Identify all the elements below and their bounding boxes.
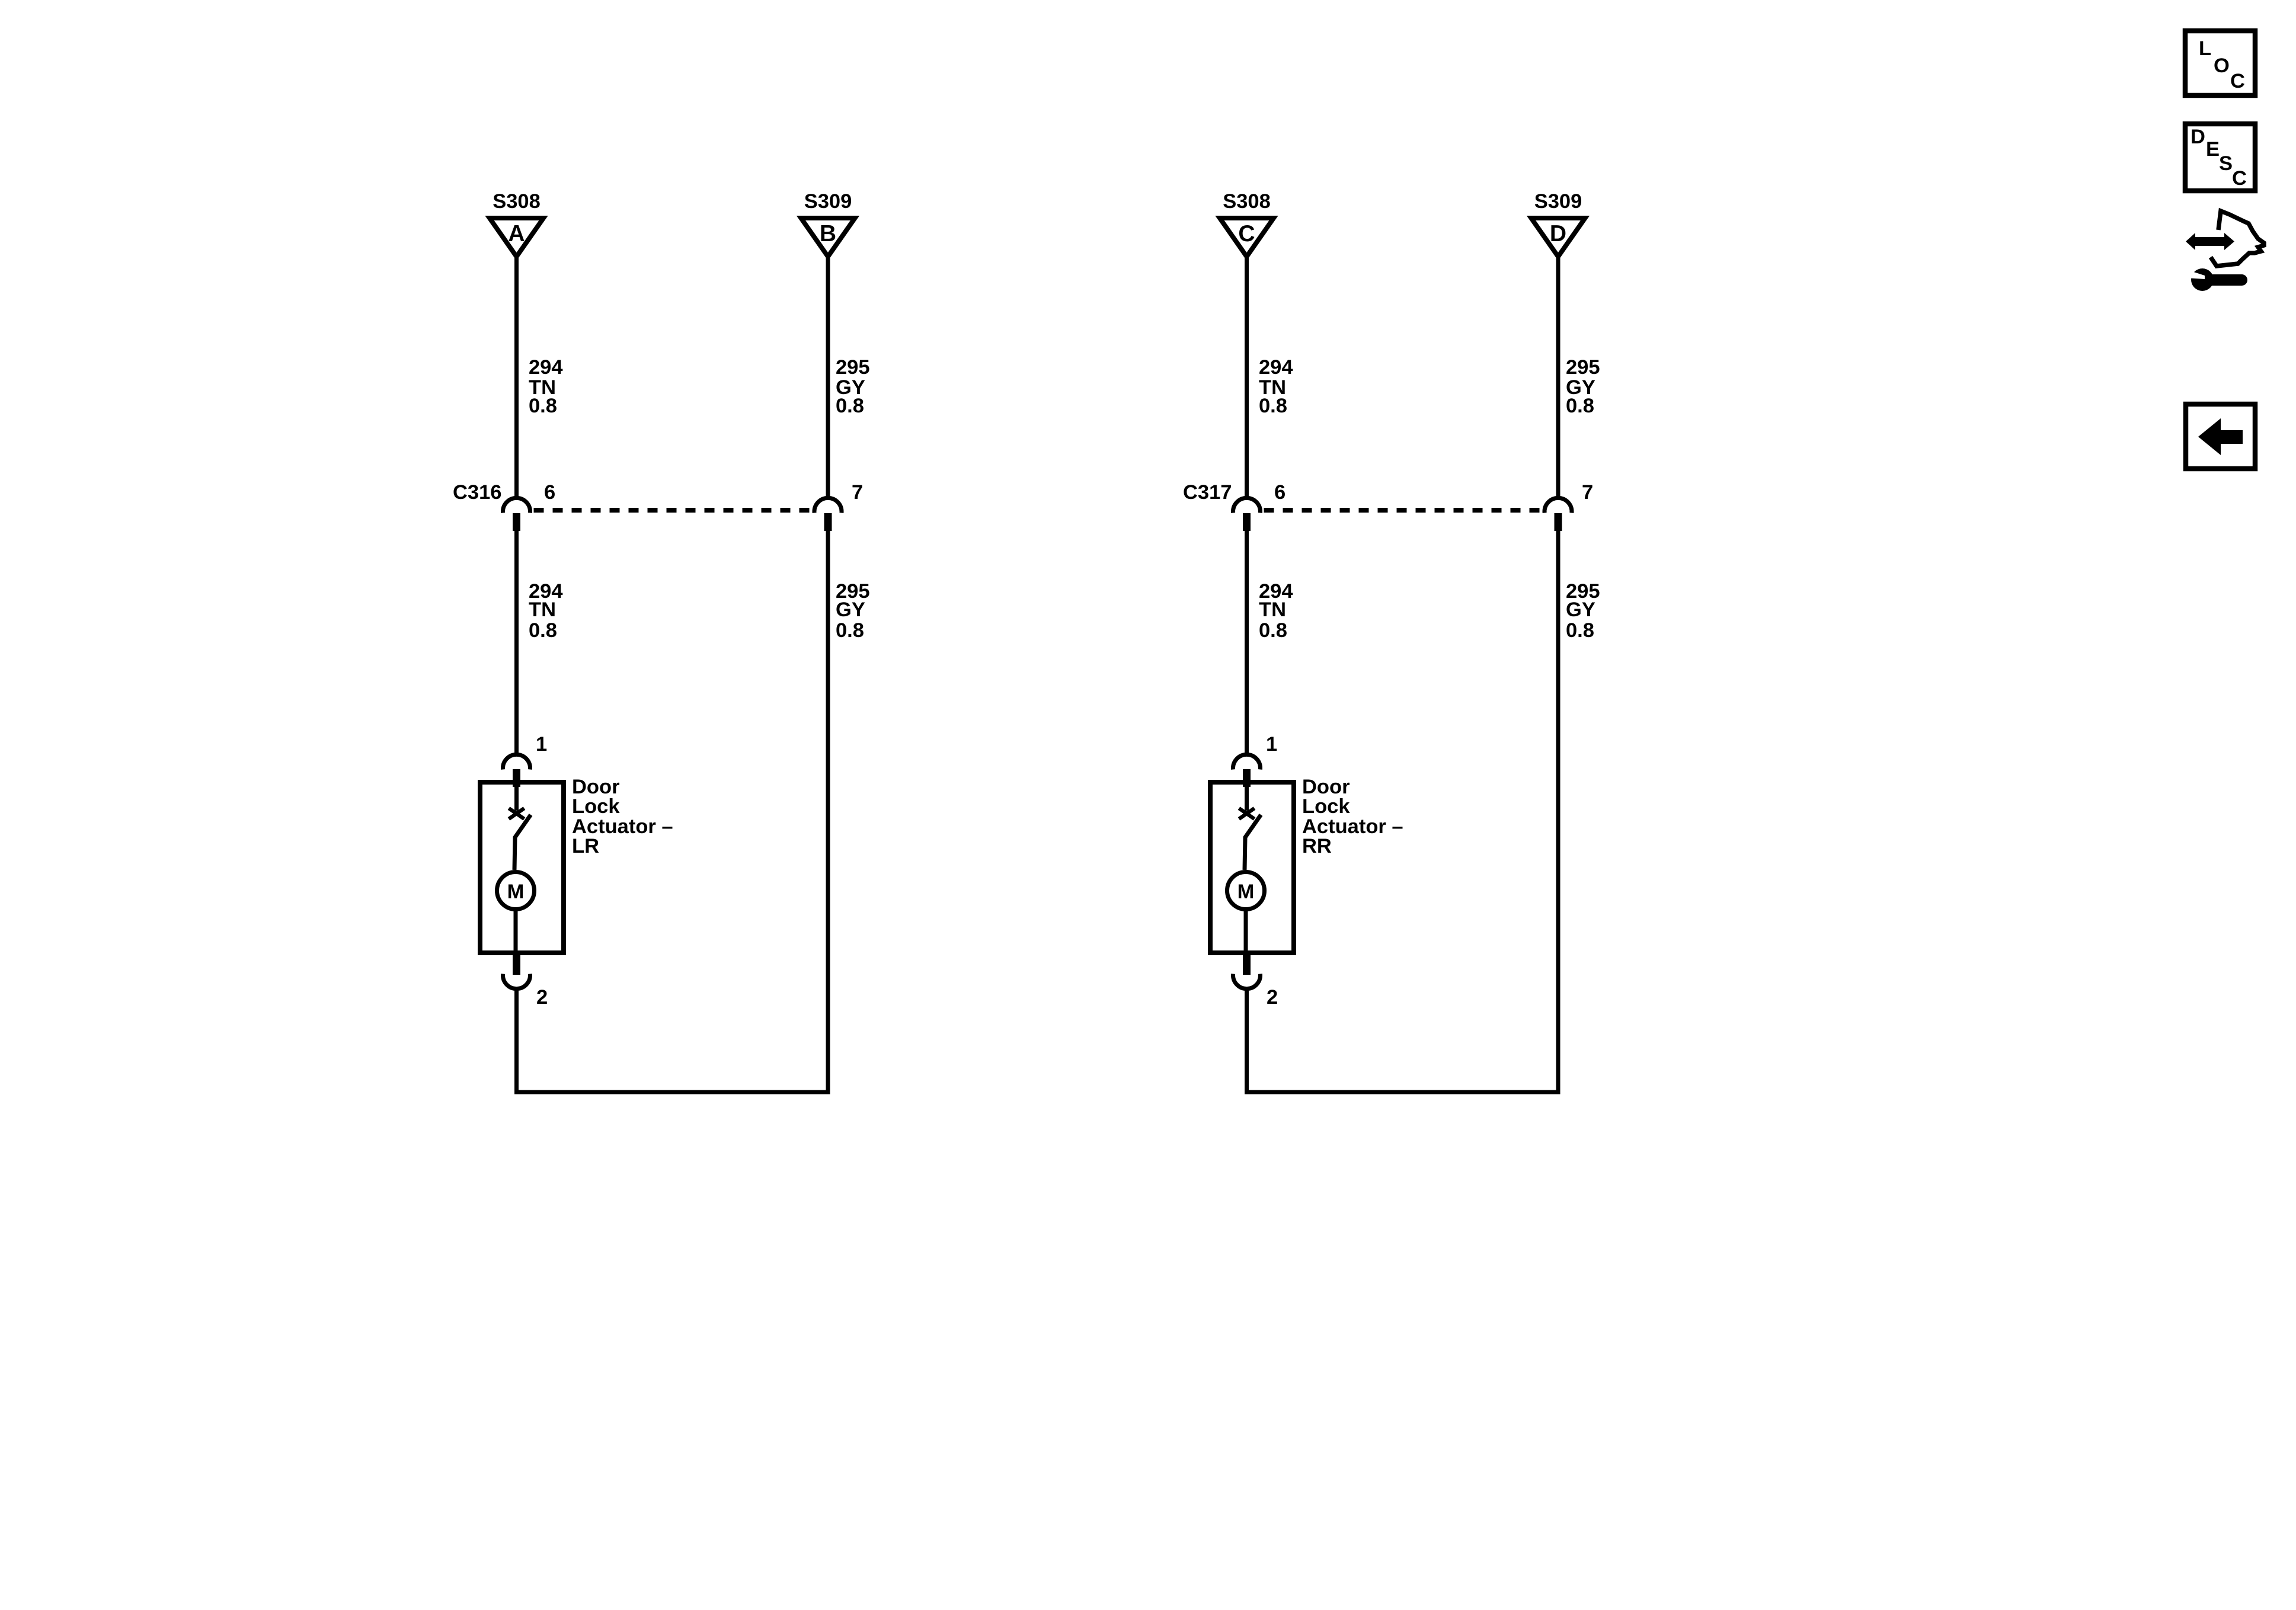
actuator connector pin 2: [503, 954, 548, 1009]
svg-text:6: 6: [544, 481, 555, 504]
svg-text:L: L: [2199, 37, 2211, 60]
svg-text:O: O: [2214, 55, 2230, 77]
connector C317 pin 7: [1544, 481, 1593, 531]
wire 294 TN upper segment: [514, 257, 519, 499]
wire label 294 TN 0.8 (lower): [1259, 580, 1293, 642]
connector C316 dashed line: [534, 508, 811, 513]
svg-text:C316: C316: [453, 481, 501, 504]
DESC button: [2185, 124, 2255, 191]
switch inside actuator: [1239, 782, 1261, 870]
svg-text:2: 2: [536, 986, 548, 1009]
component label Door Lock Actuator - LR: [572, 776, 673, 857]
svg-text:0.8: 0.8: [529, 395, 557, 417]
switch inside actuator: [509, 782, 531, 870]
svg-text:GY: GY: [836, 598, 865, 621]
svg-text:GY: GY: [1566, 598, 1595, 621]
wire label 295 GY 0.8 (lower): [836, 580, 870, 642]
wire 295 GY lower segment: [826, 530, 830, 1094]
splice S309 arrow D: [1531, 190, 1585, 257]
svg-text:7: 7: [1582, 481, 1593, 504]
actuator connector pin 2: [1233, 954, 1278, 1009]
svg-text:A: A: [508, 221, 525, 247]
connector C317 pin 6: [1233, 481, 1286, 531]
wire label 295 GY 0.8 (upper): [836, 356, 870, 417]
motor M: [497, 872, 535, 956]
wire label 294 TN 0.8 (upper): [529, 356, 563, 417]
svg-text:C: C: [2230, 70, 2245, 92]
wire 294 TN lower segment: [1245, 530, 1249, 755]
svg-text:7: 7: [852, 481, 863, 504]
svg-text:6: 6: [1274, 481, 1285, 504]
connector-view icon housing outline: [2211, 211, 2264, 266]
actuator connector pin 1: [1233, 733, 1278, 787]
svg-text:RR: RR: [1302, 835, 1332, 857]
connector C316 pin 7: [814, 481, 863, 531]
motor M: [1227, 872, 1265, 956]
svg-text:TN: TN: [1259, 598, 1286, 621]
svg-text:295: 295: [1566, 356, 1600, 379]
svg-text:D: D: [2191, 126, 2205, 148]
svg-text:0.8: 0.8: [1259, 619, 1287, 642]
svg-text:S308: S308: [1223, 190, 1271, 213]
wire 294 TN upper segment: [1245, 257, 1249, 499]
svg-text:2: 2: [1267, 986, 1278, 1009]
connector-view icon wrench: [2186, 268, 2247, 291]
svg-text:0.8: 0.8: [1566, 395, 1594, 417]
svg-text:D: D: [1550, 221, 1566, 247]
actuator connector pin 1: [503, 733, 548, 787]
svg-text:0.8: 0.8: [836, 619, 864, 642]
splice S308 arrow C: [1220, 190, 1274, 257]
wire 295 GY upper segment: [1556, 257, 1560, 499]
svg-text:0.8: 0.8: [1259, 395, 1287, 417]
svg-text:0.8: 0.8: [529, 619, 557, 642]
svg-text:B: B: [820, 221, 836, 247]
wire label 295 GY 0.8 (upper): [1566, 356, 1600, 417]
wire from pin 2 down: [1245, 991, 1249, 1094]
wire 295 GY upper segment: [826, 257, 830, 499]
splice S309 arrow B: [801, 190, 855, 257]
svg-text:M: M: [507, 881, 525, 903]
wire from pin 2 down: [514, 991, 519, 1094]
splice S308 arrow A: [490, 190, 543, 257]
svg-text:S309: S309: [804, 190, 852, 213]
component label Door Lock Actuator - RR: [1302, 776, 1403, 857]
bottom connecting wire: [514, 1090, 830, 1094]
svg-text:1: 1: [1266, 733, 1277, 756]
door lock actuator box (LR): [480, 782, 564, 953]
svg-text:LR: LR: [572, 835, 599, 857]
wire label 295 GY 0.8 (lower): [1566, 580, 1600, 642]
svg-text:TN: TN: [529, 598, 556, 621]
wire 295 GY lower segment: [1556, 530, 1560, 1094]
wire label 294 TN 0.8 (upper): [1259, 356, 1293, 417]
svg-text:294: 294: [1259, 356, 1293, 379]
connector C317 dashed line: [1264, 508, 1542, 513]
wire label 294 TN 0.8 (lower): [529, 580, 563, 642]
svg-text:E: E: [2206, 138, 2220, 161]
svg-text:Lock: Lock: [1302, 795, 1350, 818]
svg-text:C317: C317: [1183, 481, 1232, 504]
connector C316 pin 6: [503, 481, 556, 531]
svg-text:C: C: [2232, 167, 2247, 190]
door lock actuator box (RR): [1210, 782, 1294, 953]
svg-text:294: 294: [529, 356, 563, 379]
svg-text:0.8: 0.8: [836, 395, 864, 417]
svg-text:S: S: [2219, 152, 2233, 175]
wire 294 TN lower segment: [514, 530, 519, 755]
svg-text:0.8: 0.8: [1566, 619, 1594, 642]
svg-text:1: 1: [536, 733, 547, 756]
svg-text:S308: S308: [493, 190, 541, 213]
bottom connecting wire: [1245, 1090, 1560, 1094]
connector-view icon double arrow: [2186, 233, 2234, 250]
svg-text:S309: S309: [1534, 190, 1582, 213]
LOC button: [2185, 31, 2255, 95]
back arrow button: [2186, 404, 2255, 469]
svg-text:295: 295: [836, 356, 870, 379]
svg-text:Lock: Lock: [572, 795, 620, 818]
svg-text:M: M: [1237, 881, 1255, 903]
svg-text:C: C: [1238, 221, 1255, 247]
